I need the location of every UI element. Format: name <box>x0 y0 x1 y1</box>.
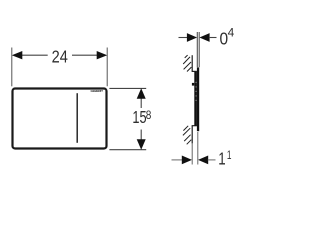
dimension 24 extension line left <box>11 48 13 87</box>
dimension 1-1 label <box>218 148 231 169</box>
dimension 0-4 arrow right <box>199 33 209 42</box>
dimension 15-8 arrow down <box>137 139 146 150</box>
side view niche bottom line <box>192 125 197 127</box>
dimension 1-1 tail left <box>172 159 183 161</box>
dimension 1-1 arrow right <box>198 156 208 165</box>
dimension 24 line right segment <box>72 54 99 56</box>
svg-text:4: 4 <box>228 25 235 39</box>
dimension 24 label <box>52 46 69 66</box>
svg-text:1: 1 <box>227 148 232 162</box>
dimension 24 line left segment <box>21 54 48 56</box>
dimension 1-1 extension line right <box>197 132 199 165</box>
dimension 0-4 label <box>220 25 235 48</box>
side view wall hatching top <box>183 55 191 71</box>
side view plate rear body <box>194 72 197 126</box>
dimension 1-1 arrow left <box>182 156 192 165</box>
side view niche top line <box>192 70 197 72</box>
svg-text:15: 15 <box>132 107 146 127</box>
dimension 0-4 arrow left <box>187 33 197 42</box>
side view plate rear clip nub <box>192 83 194 86</box>
side view wall face line bottom <box>191 126 193 144</box>
plate slot line <box>76 93 78 143</box>
dimension 24 arrow left <box>12 51 22 59</box>
geberit logo text <box>91 89 104 93</box>
dimension 0-4 tail left <box>179 37 188 39</box>
dimension 0-4 extension line pair <box>197 32 199 67</box>
dimension 15-8 arrow up <box>137 88 146 99</box>
side view mechanism dots <box>196 82 197 101</box>
dimension 15-8 line upper segment <box>140 97 142 109</box>
side view wall face line top <box>191 55 193 71</box>
svg-text:24: 24 <box>52 46 69 66</box>
dimension 1-1 extension line left <box>191 143 193 164</box>
svg-text:8: 8 <box>146 108 152 122</box>
svg-text:GEBERIT: GEBERIT <box>91 89 104 93</box>
dimension 15-8 extension line bottom <box>109 149 146 151</box>
plate front view outline <box>13 89 107 149</box>
dimension 0-4 tail right <box>209 37 217 39</box>
dimension 24 arrow right <box>97 51 108 59</box>
side view plate front lip <box>197 67 199 131</box>
svg-text:1: 1 <box>218 149 225 169</box>
dimension 15-8 label <box>132 107 151 127</box>
dimension 1-1 tail right <box>208 159 216 161</box>
side view wall hatching bottom <box>183 126 191 145</box>
dimension 24 extension line right <box>106 48 108 87</box>
dimension 15-8 extension line top <box>109 87 146 89</box>
dimension 15-8 line lower segment <box>140 130 142 142</box>
